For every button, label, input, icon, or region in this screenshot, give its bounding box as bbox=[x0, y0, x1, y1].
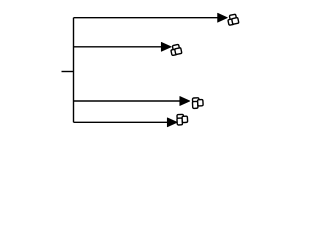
branch 2 line bbox=[74, 46, 163, 48]
branch 1 line bbox=[74, 17, 219, 19]
branch 2 icon bbox=[170, 44, 182, 55]
branch 3 arrowhead bbox=[180, 97, 190, 106]
branch 1 arrowhead bbox=[218, 13, 228, 22]
branch 4 line bbox=[74, 121, 169, 123]
branch 3 icon bbox=[192, 98, 203, 109]
trunk bbox=[73, 18, 75, 123]
branch 2 arrowhead bbox=[161, 42, 171, 51]
branch 1 icon bbox=[227, 14, 239, 25]
branch 4 icon bbox=[177, 114, 188, 125]
branch 3 line bbox=[74, 100, 181, 102]
branch 4 arrowhead bbox=[167, 118, 177, 127]
stub bbox=[62, 71, 74, 73]
